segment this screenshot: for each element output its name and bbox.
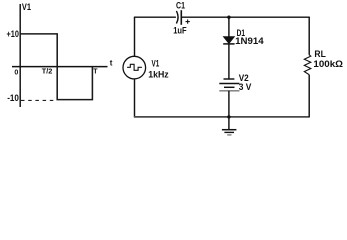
capacitor C1 curved plate bbox=[176, 11, 178, 24]
source V1 circle bbox=[123, 56, 146, 79]
node junction dot top (diode branch) bbox=[227, 16, 230, 19]
svg-text:T/2: T/2 bbox=[42, 69, 53, 76]
svg-text:3 V: 3 V bbox=[239, 82, 252, 93]
wire top rail left of C1 bbox=[134, 16, 176, 18]
wire top rail right of C1 bbox=[181, 16, 309, 18]
battery V2 short plate 1 bbox=[224, 78, 235, 80]
wire left vertical bottom (source to bottom rail) bbox=[134, 79, 136, 117]
svg-text:1kHz: 1kHz bbox=[148, 70, 169, 81]
ground bar 2 bbox=[224, 131, 234, 133]
wire right vertical bottom bbox=[308, 75, 310, 117]
capacitor C1 plus sign bbox=[186, 21, 190, 23]
svg-text:t: t bbox=[110, 58, 113, 67]
source V1 square-wave glyph bbox=[127, 64, 142, 70]
svg-text:T: T bbox=[93, 69, 98, 76]
battery V2 long plate gray bbox=[219, 90, 239, 92]
svg-text:-10: -10 bbox=[7, 93, 19, 104]
ground bar 3 bbox=[227, 134, 231, 136]
svg-text:1N914: 1N914 bbox=[235, 36, 264, 47]
node junction dot bottom (ground) bbox=[227, 115, 230, 118]
dashed -10 level line bbox=[21, 99, 56, 101]
battery V2 long plate bbox=[219, 83, 239, 85]
wire ground stem bbox=[228, 117, 230, 130]
diode D1 cathode bar bbox=[223, 43, 234, 45]
wire left vertical top (source to top rail) bbox=[134, 17, 136, 56]
svg-text:1uF: 1uF bbox=[173, 26, 187, 37]
wire bottom rail bbox=[134, 116, 310, 118]
wire battery to bottom rail bbox=[228, 91, 230, 117]
svg-text:0: 0 bbox=[14, 69, 18, 76]
resistor RL zigzag bbox=[304, 55, 311, 75]
svg-text:C1: C1 bbox=[176, 0, 186, 11]
square wave high segment bbox=[20, 34, 92, 100]
svg-text:100kΩ: 100kΩ bbox=[313, 59, 343, 70]
wire diode to battery bbox=[228, 44, 230, 79]
waveform vertical axis bbox=[19, 4, 21, 107]
svg-text:+10: +10 bbox=[7, 29, 19, 40]
ground bar 1 bbox=[222, 129, 237, 131]
svg-text:V1: V1 bbox=[152, 58, 160, 69]
diode D1 triangle bbox=[223, 37, 234, 44]
waveform horizontal axis bbox=[12, 66, 108, 68]
wire diode branch upper bbox=[228, 17, 230, 37]
battery V2 short plate 2 bbox=[224, 86, 235, 88]
capacitor C1 flat plate bbox=[180, 10, 182, 25]
svg-text:V1: V1 bbox=[22, 2, 32, 13]
wire right vertical top bbox=[308, 17, 310, 54]
